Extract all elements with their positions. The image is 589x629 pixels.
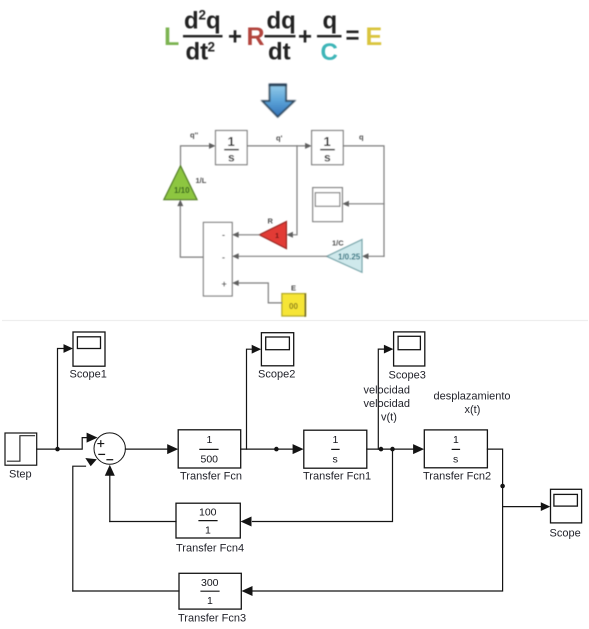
transfer fcn4 block 100/1 [176, 503, 240, 538]
svg-text:00: 00 [289, 302, 298, 311]
scope block [551, 489, 582, 523]
wire integrator1 to integrator2 [247, 145, 305, 147]
wire tap down to tf4 [253, 449, 393, 521]
svg-text:1: 1 [453, 434, 459, 446]
svg-text:Transfer Fcn4: Transfer Fcn4 [176, 543, 244, 555]
wire to scope [503, 506, 541, 508]
gain 1/C cyan triangle [327, 240, 362, 273]
svg-text:q: q [323, 8, 338, 35]
wire feedback TF4 into sum bottom [109, 476, 111, 522]
svg-text:1/10: 1/10 [174, 186, 190, 195]
integrator U2 (1/s) [312, 131, 344, 165]
svg-text:s: s [333, 454, 338, 466]
wire junction up to scope1 [58, 349, 65, 450]
wire gain 1/C output to sum [239, 255, 327, 257]
equation L d2q/dt2 + R dq/dt + q/C = E [164, 8, 382, 67]
svg-text:L: L [164, 23, 179, 51]
svg-text:Scope1: Scope1 [70, 369, 107, 381]
svg-text:Scope2: Scope2 [258, 369, 295, 381]
svg-text:velocidad: velocidad [364, 398, 410, 410]
wire into scope [349, 203, 385, 205]
svg-text:1: 1 [324, 134, 331, 149]
svg-text:1: 1 [205, 525, 211, 537]
gain 1/L green triangle [164, 166, 197, 200]
source E yellow block [282, 294, 306, 316]
wire into gain 1/C [368, 255, 384, 257]
transfer fcn3 block 300/1 [179, 573, 241, 609]
svg-text:1: 1 [207, 434, 213, 446]
svg-text:-: - [222, 230, 225, 240]
svg-text:+: + [298, 24, 312, 51]
svg-text:s: s [324, 151, 331, 165]
svg-text:1: 1 [207, 595, 213, 607]
svg-text:1/C: 1/C [332, 239, 344, 248]
svg-text:Transfer Fcn3: Transfer Fcn3 [178, 613, 246, 625]
scope1 block [73, 332, 105, 366]
faint image bottom edge [2, 320, 588, 322]
svg-text:Transfer Fcn: Transfer Fcn [180, 471, 242, 483]
svg-text:Transfer Fcn1: Transfer Fcn1 [303, 471, 371, 483]
transfer fcn block 1/500 [178, 430, 241, 468]
svg-text:velocidad: velocidad [364, 385, 410, 397]
svg-text:q: q [206, 8, 221, 35]
svg-text:d: d [184, 8, 199, 35]
integrator U1 (1/s) [216, 131, 248, 165]
svg-text:+: + [222, 279, 227, 289]
junction node [55, 447, 60, 452]
svg-text:1: 1 [228, 134, 235, 149]
svg-text:+: + [228, 24, 242, 51]
svg-text:R: R [247, 23, 265, 51]
wire tf to tf1 [241, 448, 294, 450]
step block [5, 433, 37, 465]
svg-text:E: E [366, 23, 383, 51]
svg-text:q'': q'' [190, 131, 198, 140]
sum block (rectangle) [203, 222, 232, 296]
svg-text:Scope: Scope [550, 528, 581, 540]
wire tap up to scope3 [378, 349, 385, 449]
svg-text:2: 2 [199, 8, 207, 23]
svg-text:500: 500 [201, 454, 219, 466]
svg-text:100: 100 [199, 507, 217, 519]
svg-text:x(t): x(t) [465, 404, 481, 416]
svg-text:Scope3: Scope3 [389, 370, 426, 382]
wire sum output up to gain 1/L [180, 206, 203, 258]
wire feedback TF3 into sum lower-left [73, 466, 86, 591]
svg-text:v(t): v(t) [381, 411, 397, 423]
scope2 block [261, 333, 293, 366]
svg-text:dt: dt [268, 39, 291, 66]
svg-text:desplazamiento: desplazamiento [434, 391, 511, 403]
wire source E to sum plus input [239, 283, 282, 303]
svg-text:300: 300 [201, 577, 219, 589]
wire tf4 output to sum [110, 521, 176, 523]
scope block (middle) [313, 188, 343, 222]
svg-text:E: E [291, 284, 296, 293]
svg-text:dt: dt [186, 39, 209, 66]
wire tf2 output down and to tf3 [253, 449, 503, 591]
svg-text:Step: Step [9, 469, 32, 481]
sum junction circle [94, 433, 125, 464]
wire step to sum [37, 438, 89, 450]
wire tf3 output to sum feedback [73, 590, 179, 592]
big blue down arrow [262, 84, 294, 116]
svg-text:1: 1 [333, 434, 339, 446]
svg-text:1/L: 1/L [196, 176, 207, 185]
wire tf1 to tf2 [367, 448, 414, 450]
wire integrator2 output down right side [343, 146, 384, 256]
transfer fcn1 block 1/s [304, 430, 367, 468]
svg-text:q': q' [276, 134, 283, 143]
svg-text:-: - [222, 253, 225, 263]
svg-text:1/0.25: 1/0.25 [338, 253, 361, 262]
scope3 block [394, 332, 425, 366]
wire tap q' down to gain R [293, 146, 298, 235]
wire gain R output to sum [239, 234, 260, 236]
transfer fcn2 block 1/s [424, 430, 487, 468]
wire tap up to scope2 [247, 349, 253, 449]
svg-text:q: q [359, 133, 364, 142]
wire sum to transfer fcn [125, 448, 168, 450]
svg-text:R: R [268, 217, 274, 226]
wire gain 1/L top to integrator1 [181, 146, 210, 166]
svg-text:s: s [228, 151, 235, 165]
svg-text:s: s [453, 454, 458, 466]
svg-text:Transfer Fcn2: Transfer Fcn2 [423, 471, 491, 483]
svg-text:dq: dq [267, 8, 296, 35]
svg-text:2: 2 [208, 40, 216, 55]
svg-text:1: 1 [275, 231, 279, 240]
svg-text:C: C [321, 39, 338, 66]
svg-text:=: = [346, 23, 360, 50]
gain R red triangle [259, 222, 286, 249]
